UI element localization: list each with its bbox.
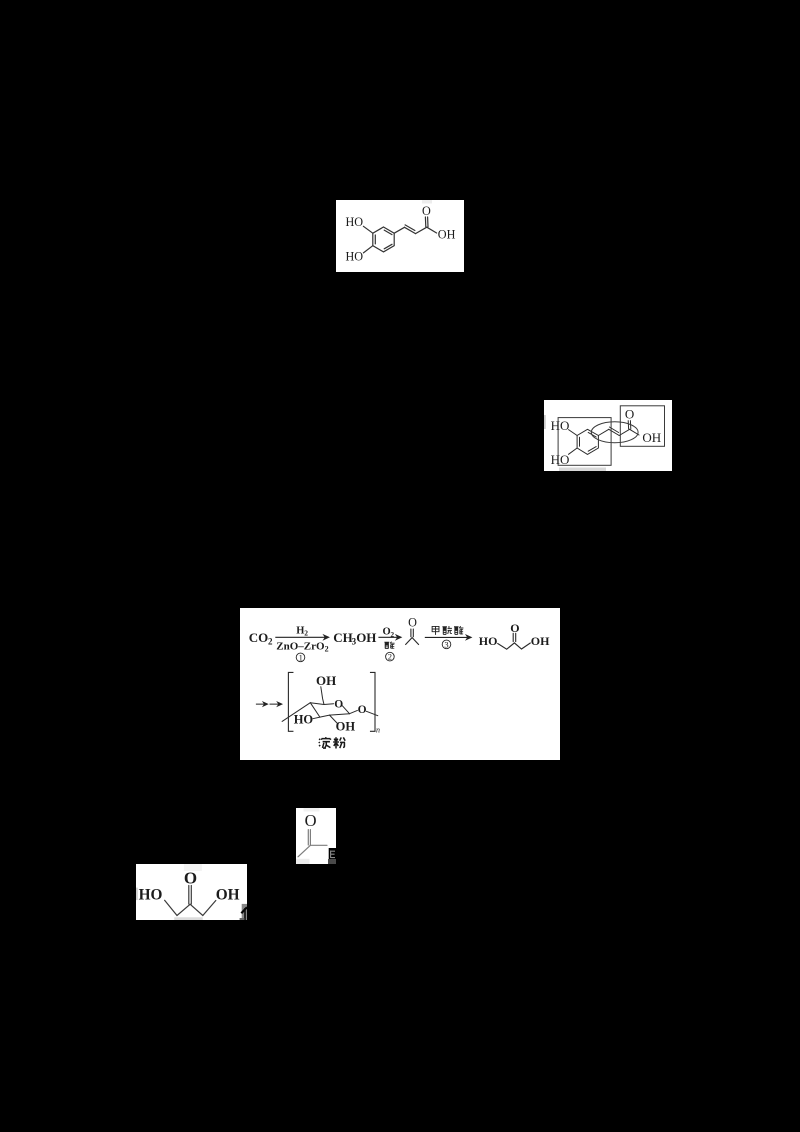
svg-text:HO: HO bbox=[479, 634, 498, 648]
benzene ring bbox=[373, 227, 394, 252]
svg-text:OH: OH bbox=[642, 430, 661, 445]
svg-text:n: n bbox=[376, 726, 380, 735]
notch lower grey block bbox=[328, 859, 336, 864]
second row: double arrows bbox=[256, 702, 268, 706]
svg-text:2: 2 bbox=[304, 629, 308, 638]
faint scan smudge top bbox=[304, 808, 320, 812]
ring bond O-C1 bbox=[342, 706, 349, 714]
svg-text:HO: HO bbox=[139, 886, 163, 903]
bond C3-OH bbox=[313, 717, 320, 719]
C=O double bond bbox=[308, 830, 310, 845]
svg-text:OH: OH bbox=[316, 673, 336, 688]
svg-text:ZnO–ZrO: ZnO–ZrO bbox=[276, 640, 325, 652]
svg-text:O: O bbox=[510, 621, 519, 635]
bond ring to top OH bbox=[363, 226, 372, 233]
ring double bond left bbox=[579, 437, 581, 446]
bond to right methyl bbox=[310, 844, 327, 846]
partial character bottom-right bbox=[240, 904, 247, 920]
starch label (CJK x2) bbox=[319, 737, 331, 748]
left bracket bbox=[288, 672, 293, 731]
structure image 3: reaction scheme bbox=[240, 608, 560, 760]
svg-text:O: O bbox=[305, 811, 317, 830]
svg-text:O: O bbox=[408, 616, 417, 630]
bond C to OH bbox=[427, 227, 437, 233]
svg-text:OH: OH bbox=[356, 630, 376, 645]
svg-text:OH: OH bbox=[531, 634, 550, 648]
ring bond C1-C2 bbox=[330, 714, 350, 715]
acetone skeleton bbox=[406, 638, 419, 645]
svg-text:O: O bbox=[625, 407, 634, 422]
svg-text:OH: OH bbox=[438, 228, 456, 242]
structure image 4: acetone fragment bbox=[296, 808, 336, 864]
arrow 3 label formyl enzyme (CJK x3) bbox=[432, 626, 439, 634]
arrow 2 bbox=[378, 635, 401, 639]
bond ring to top OH bbox=[569, 430, 578, 436]
rectangle marking carboxyl part bbox=[620, 406, 664, 447]
bond ring to CH bbox=[598, 429, 608, 435]
svg-text:OH: OH bbox=[216, 886, 240, 903]
dark overlay notch bbox=[329, 848, 336, 864]
ring bond C2-C3 bbox=[320, 715, 330, 717]
vinyl double bond CH=CH bbox=[609, 429, 619, 435]
ellipse marking vinyl part bbox=[591, 422, 638, 443]
svg-text:HO: HO bbox=[346, 215, 364, 229]
bond O-right neighbour unit bbox=[366, 711, 377, 715]
ring bond C5-O bbox=[324, 703, 334, 706]
ring double bond top-right bbox=[384, 230, 392, 235]
vinyl double bond CH=CH bbox=[405, 227, 416, 233]
bond to left methyl bbox=[298, 845, 310, 857]
svg-text:1: 1 bbox=[299, 652, 303, 662]
svg-text:2: 2 bbox=[325, 645, 329, 654]
right CH2 bonds bbox=[190, 901, 216, 916]
bond CH to COOH carbon bbox=[619, 429, 629, 435]
benzene ring bbox=[577, 429, 598, 454]
faint scan smudge bbox=[422, 200, 432, 204]
ring double bond left bbox=[374, 235, 376, 244]
arrow 1 bbox=[275, 635, 328, 639]
bond C1-O glycosidic bbox=[350, 710, 358, 713]
partial character in notch bbox=[331, 851, 335, 859]
arrow 3 bbox=[425, 635, 471, 639]
step circle 3 bbox=[442, 640, 451, 649]
bond C2-OH bbox=[330, 715, 338, 724]
svg-text:CO: CO bbox=[249, 630, 268, 645]
structure image 2: caffeic acid with marked functional groups bbox=[544, 400, 672, 471]
faint scan smudge bottom bbox=[174, 917, 203, 920]
svg-text:2: 2 bbox=[388, 652, 392, 662]
rectangle marking phenol part bbox=[558, 418, 611, 466]
ring double bond top-right bbox=[588, 432, 596, 437]
step circle 1 bbox=[296, 653, 305, 662]
svg-text:2: 2 bbox=[390, 630, 394, 639]
faint scan smudge bottom bbox=[559, 468, 606, 472]
faint scan smudge left edge bbox=[136, 888, 138, 901]
acetone C=O double bond bbox=[411, 629, 413, 637]
ring double bond bottom-right bbox=[384, 244, 392, 249]
carbonyl double bond C=O bbox=[424, 217, 426, 227]
ring double bond bottom-right bbox=[588, 447, 596, 452]
bond CH2-OH bbox=[321, 687, 324, 705]
bond C to OH bbox=[630, 429, 639, 435]
structure image 5: 1,3-dihydroxyacetone bbox=[136, 864, 247, 920]
right bracket bbox=[371, 672, 376, 731]
bond ring to CH bbox=[394, 227, 404, 233]
svg-text:HO: HO bbox=[551, 418, 570, 433]
svg-text:HO: HO bbox=[551, 452, 570, 467]
faint scan smudge top bbox=[184, 864, 202, 871]
svg-text:O: O bbox=[184, 868, 197, 887]
svg-text:O: O bbox=[358, 704, 367, 716]
product skeleton bbox=[498, 643, 531, 649]
structure image 1: caffeic acid bbox=[336, 200, 464, 272]
arrow 2 label enzyme (CJK) bbox=[384, 642, 394, 649]
bond to left neighbour unit bbox=[282, 703, 310, 722]
svg-text:O: O bbox=[422, 204, 431, 218]
bond ring to bottom OH bbox=[363, 246, 372, 253]
carbonyl double bond C=O bbox=[627, 421, 629, 429]
svg-text:3: 3 bbox=[444, 639, 448, 649]
svg-text:HO: HO bbox=[346, 249, 364, 263]
ring bond C4-C5 bbox=[310, 703, 324, 705]
faint scan smudge bottom-left bbox=[296, 859, 310, 864]
product C=O double bond bbox=[513, 633, 516, 641]
step circle 2 bbox=[386, 652, 395, 661]
svg-text:2: 2 bbox=[268, 637, 273, 647]
ring bond C3-C4 bbox=[310, 703, 320, 717]
svg-text:O: O bbox=[334, 698, 343, 710]
svg-text:CH: CH bbox=[333, 630, 353, 645]
svg-text:OH: OH bbox=[336, 720, 356, 734]
left CH2 bonds bbox=[165, 900, 191, 915]
C=O double bond bbox=[189, 886, 192, 905]
faint scan smudge left bbox=[544, 415, 546, 429]
svg-text:HO: HO bbox=[294, 713, 314, 727]
bond CH to COOH carbon bbox=[416, 227, 427, 233]
bond ring to bottom OH bbox=[569, 448, 578, 454]
